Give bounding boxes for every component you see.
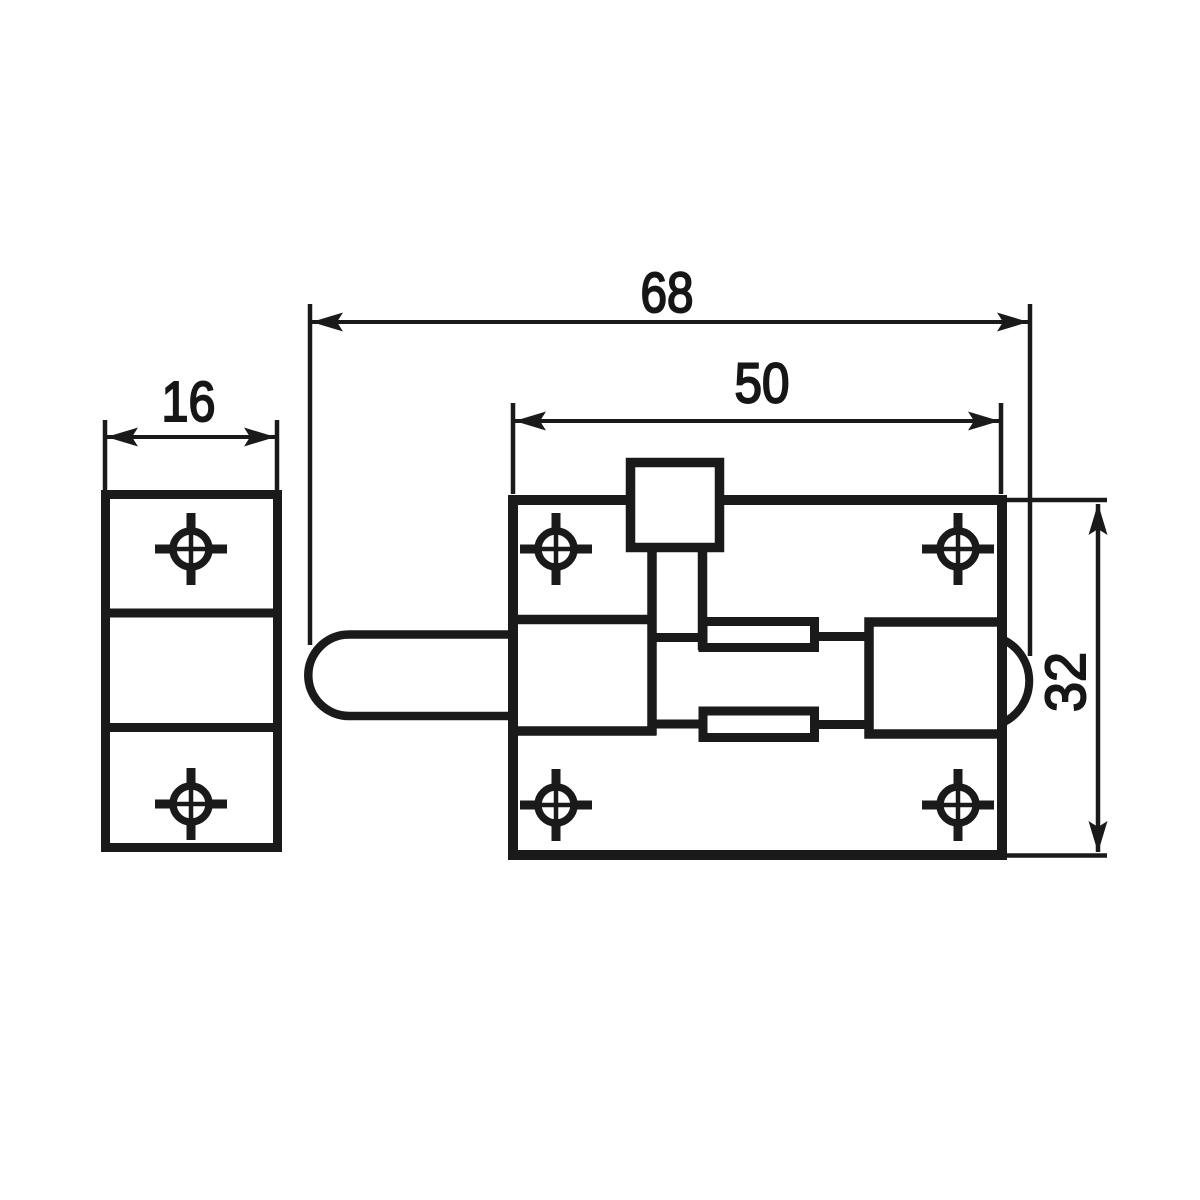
dimension 16 extension line left: [103, 420, 108, 492]
top sleeve slot: [703, 622, 815, 648]
bolt capsule top line: [349, 630, 515, 639]
dimension 68 extension line left: [308, 304, 313, 645]
dimension 50 arrow right: [968, 412, 1000, 431]
dimension 16 line: [107, 435, 275, 439]
bolt capsule round end: [308, 635, 349, 717]
dimension 50 extension line left: [511, 403, 516, 494]
dimension 68 line: [312, 320, 1028, 324]
dimension 32 arrow down: [1089, 821, 1108, 853]
knob stem left line / left block right edge: [647, 543, 657, 736]
screw hole S5: [520, 769, 592, 841]
screw hole S6: [922, 769, 994, 841]
dimension 68 arrow right: [997, 313, 1029, 332]
svg-text:16: 16: [162, 370, 216, 434]
bolt right round end arc: [1002, 639, 1029, 723]
left keeper plate outline: [106, 495, 278, 848]
screw hole S4: [922, 513, 994, 585]
svg-text:68: 68: [641, 261, 694, 325]
left plate divider upper: [103, 609, 280, 618]
bolt top edge segment B: [811, 632, 872, 641]
right guide block bottom edge: [865, 729, 1003, 739]
dimension 50 line: [515, 419, 999, 423]
left guide block bottom edge: [513, 726, 656, 736]
dimension 50 arrow left: [515, 412, 547, 431]
screw hole S1: [155, 513, 227, 585]
dimension 50 extension line right: [999, 403, 1004, 494]
left plate divider lower: [103, 723, 280, 732]
screw hole S2: [155, 768, 227, 840]
dimension 16 extension line right: [275, 420, 280, 492]
bolt bottom edge segment B: [811, 720, 872, 729]
dimension 32 line: [1096, 504, 1101, 852]
right guide block top edge: [865, 617, 1003, 627]
dimension 68 extension line right: [1028, 304, 1033, 656]
dimension 32 extension line bottom: [1007, 853, 1107, 858]
dimension 32 extension line top: [1007, 498, 1107, 503]
dimension 16 arrow left: [107, 428, 139, 447]
screw hole S3: [520, 513, 592, 585]
main plate outline: [513, 500, 1002, 855]
svg-text:50: 50: [735, 352, 790, 416]
bolt top edge segment A: [648, 633, 707, 642]
dimension 16 arrow right: [244, 428, 276, 447]
bolt bottom edge segment A: [648, 720, 707, 729]
bolt capsule bottom line: [349, 712, 515, 721]
right guide block left edge: [864, 618, 874, 739]
dimension 68 arrow left: [312, 313, 344, 332]
dimension 32 arrow up: [1089, 504, 1108, 536]
knob square: [631, 463, 720, 548]
knob stem right line: [698, 543, 708, 650]
left guide block top edge: [513, 615, 656, 625]
svg-text:32: 32: [1034, 652, 1098, 712]
bottom sleeve slot: [703, 711, 815, 738]
